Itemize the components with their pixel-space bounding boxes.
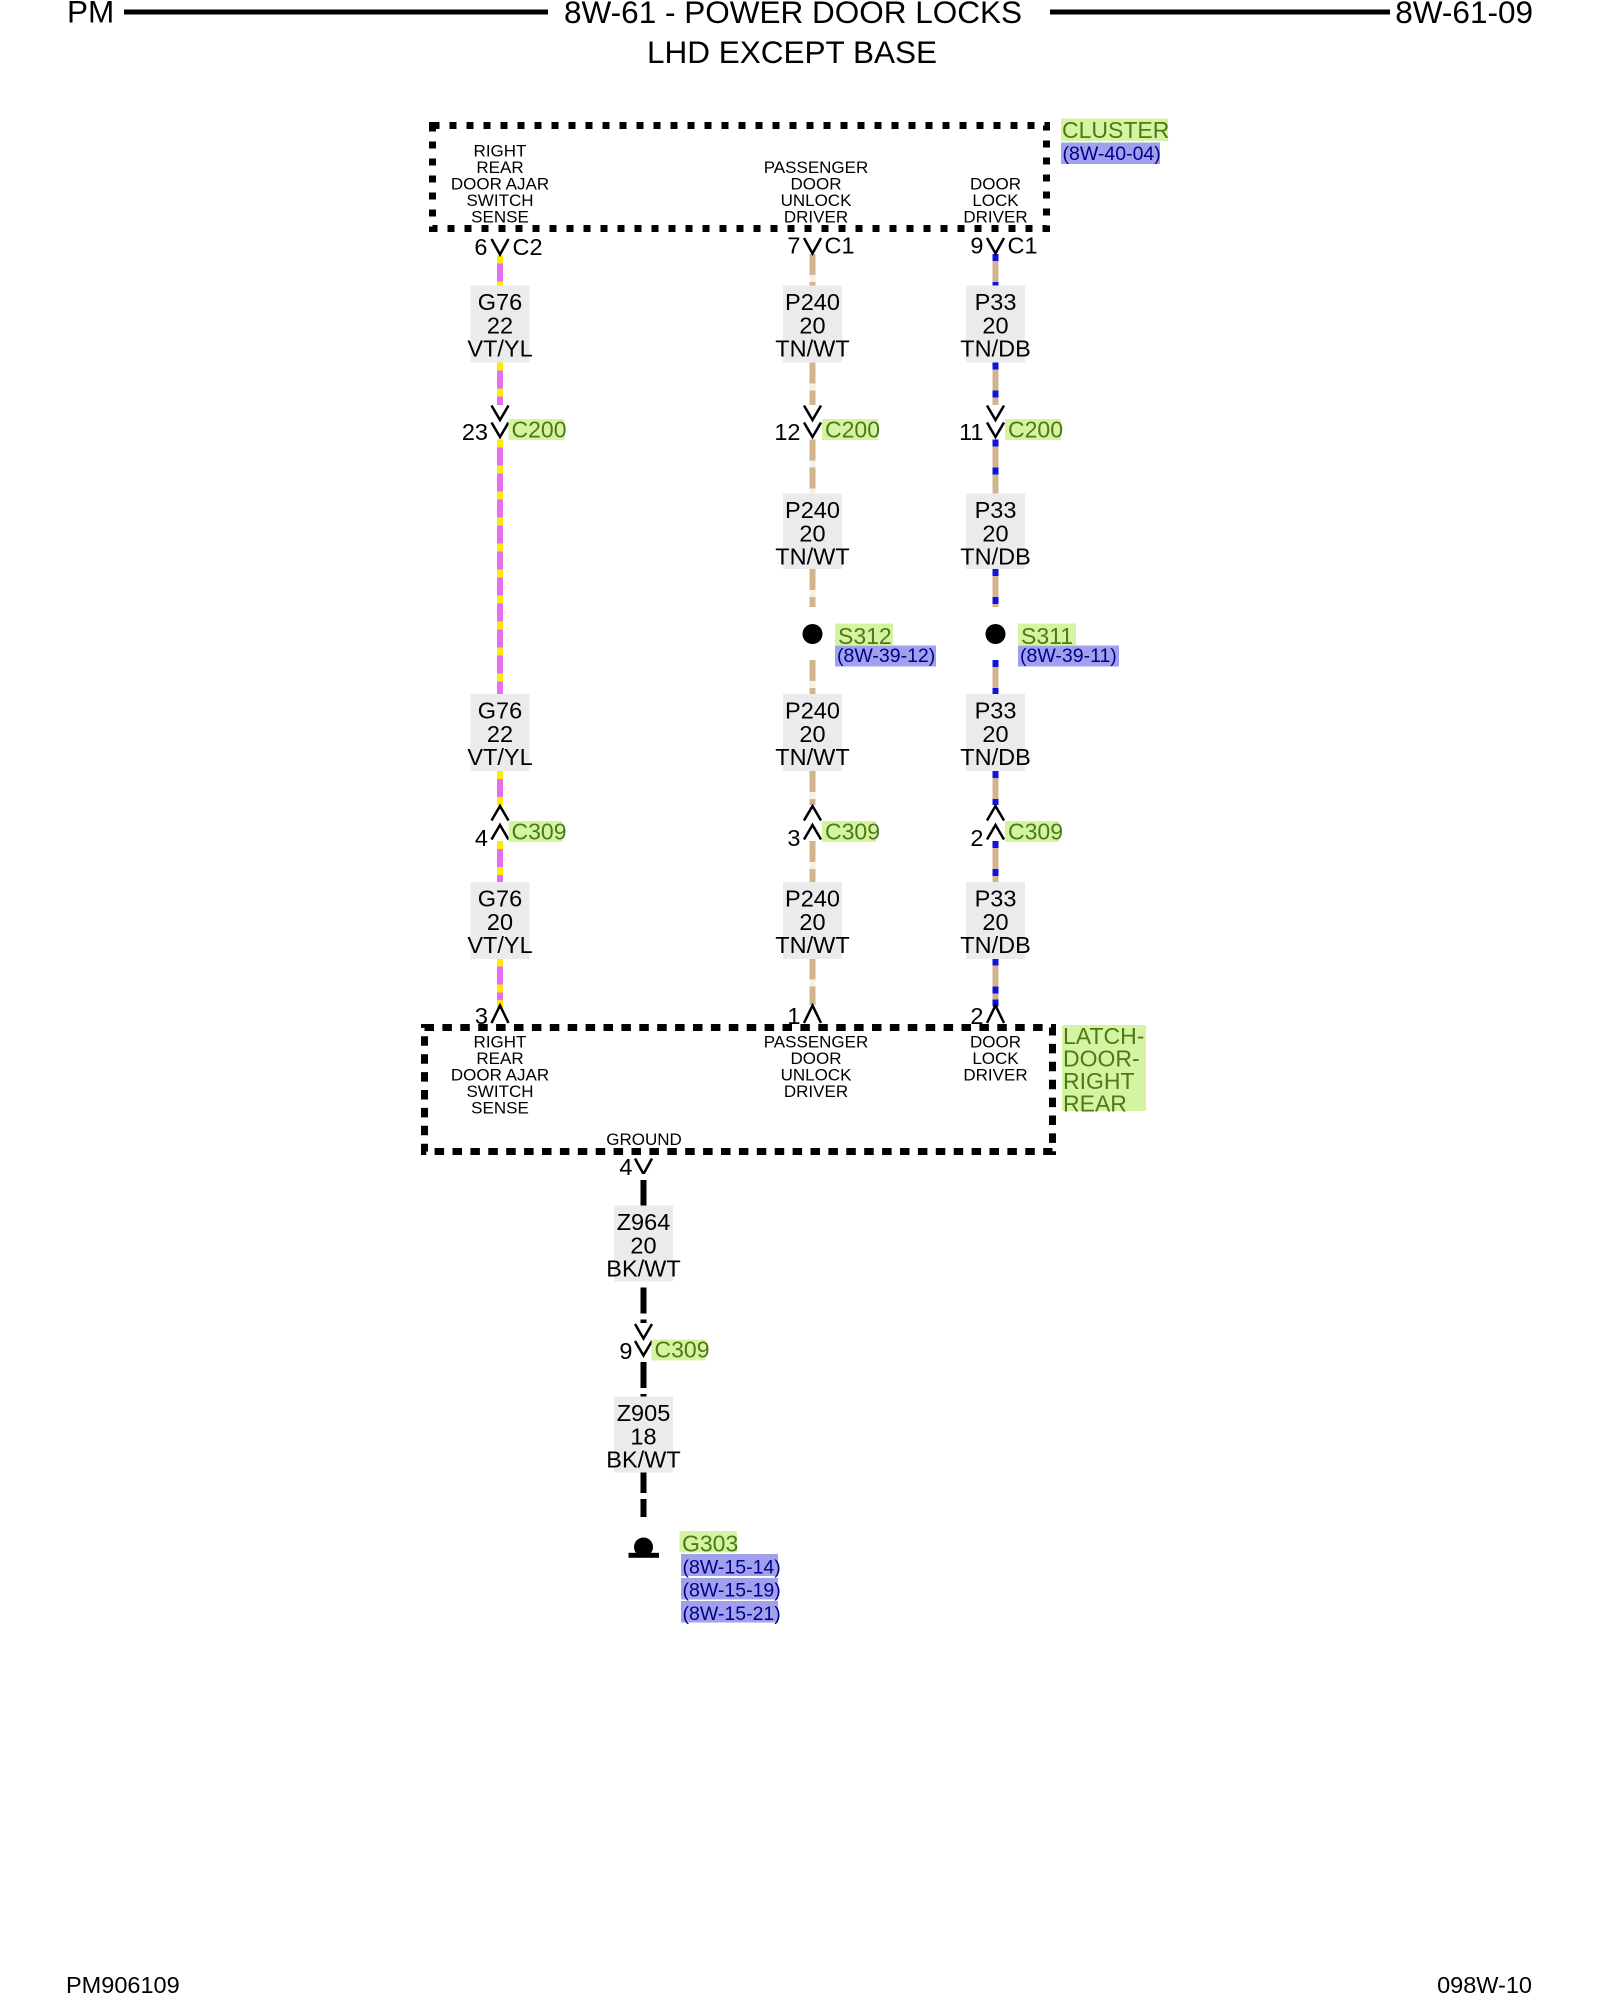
svg-text:P240: P240 [785,497,840,523]
svg-text:PM: PM [67,0,114,30]
svg-text:C2: C2 [513,234,543,260]
svg-text:20: 20 [799,312,825,338]
svg-text:20: 20 [799,520,825,546]
svg-text:C309: C309 [512,819,567,845]
svg-text:4: 4 [619,1154,632,1180]
svg-text:DRIVER: DRIVER [963,208,1027,227]
svg-text:VT/YL: VT/YL [467,744,532,770]
svg-text:P33: P33 [975,289,1017,315]
svg-text:GROUND: GROUND [606,1130,682,1149]
svg-text:G76: G76 [478,289,522,315]
svg-text:G76: G76 [478,698,522,724]
svg-text:2: 2 [970,825,983,851]
svg-text:C1: C1 [1008,233,1038,259]
svg-text:(8W-15-19): (8W-15-19) [683,1580,781,1602]
svg-text:VT/YL: VT/YL [467,932,532,958]
svg-text:Z964: Z964 [617,1209,671,1235]
svg-text:DRIVER: DRIVER [784,208,848,227]
svg-text:BK/WT: BK/WT [606,1447,680,1473]
svg-text:REAR: REAR [1063,1091,1127,1117]
svg-text:BK/WT: BK/WT [606,1256,680,1282]
svg-text:P33: P33 [975,886,1017,912]
svg-text:C200: C200 [825,417,880,443]
svg-text:20: 20 [799,909,825,935]
svg-text:P240: P240 [785,289,840,315]
svg-text:Z905: Z905 [617,1400,671,1426]
svg-text:20: 20 [982,312,1008,338]
svg-text:DRIVER: DRIVER [784,1082,848,1101]
svg-text:C200: C200 [512,417,567,443]
svg-text:TN/DB: TN/DB [960,544,1031,570]
svg-text:LHD EXCEPT BASE: LHD EXCEPT BASE [647,34,937,70]
svg-text:23: 23 [462,419,488,445]
svg-text:TN/WT: TN/WT [775,744,849,770]
svg-text:(8W-15-21): (8W-15-21) [683,1603,781,1625]
svg-text:098W-10: 098W-10 [1437,1972,1532,1998]
svg-text:(8W-15-14): (8W-15-14) [683,1557,781,1579]
svg-text:20: 20 [630,1232,656,1258]
svg-text:P240: P240 [785,886,840,912]
svg-text:20: 20 [982,721,1008,747]
svg-text:20: 20 [982,909,1008,935]
svg-text:20: 20 [982,520,1008,546]
svg-text:TN/DB: TN/DB [960,336,1031,362]
svg-text:TN/DB: TN/DB [960,932,1031,958]
svg-text:P240: P240 [785,698,840,724]
svg-text:8W-61-09: 8W-61-09 [1395,0,1533,30]
svg-text:SENSE: SENSE [471,1099,529,1118]
svg-text:22: 22 [487,312,513,338]
svg-text:C200: C200 [1008,417,1063,443]
svg-text:8W-61 - POWER DOOR LOCKS: 8W-61 - POWER DOOR LOCKS [564,0,1022,30]
svg-text:G303: G303 [682,1531,738,1557]
svg-text:C309: C309 [655,1337,710,1363]
svg-text:12: 12 [774,419,800,445]
svg-text:9: 9 [970,233,983,259]
svg-text:G76: G76 [478,886,522,912]
svg-text:CLUSTER: CLUSTER [1062,117,1169,143]
svg-text:DRIVER: DRIVER [963,1066,1027,1085]
svg-text:20: 20 [799,721,825,747]
svg-text:(8W-39-11): (8W-39-11) [1020,645,1117,667]
svg-text:VT/YL: VT/YL [467,336,532,362]
svg-text:18: 18 [630,1423,656,1449]
svg-text:P33: P33 [975,497,1017,523]
svg-text:TN/WT: TN/WT [775,544,849,570]
svg-text:C309: C309 [1008,819,1063,845]
svg-text:(8W-40-04): (8W-40-04) [1063,143,1161,165]
svg-text:4: 4 [475,825,488,851]
svg-text:PM906109: PM906109 [66,1972,180,1998]
svg-text:3: 3 [787,825,800,851]
svg-text:TN/DB: TN/DB [960,744,1031,770]
svg-text:C1: C1 [825,233,855,259]
svg-text:9: 9 [619,1338,632,1364]
svg-text:TN/WT: TN/WT [775,932,849,958]
svg-text:11: 11 [959,419,983,445]
svg-text:TN/WT: TN/WT [775,336,849,362]
svg-text:22: 22 [487,721,513,747]
svg-text:(8W-39-12): (8W-39-12) [837,645,935,667]
svg-text:7: 7 [787,233,800,259]
svg-text:P33: P33 [975,698,1017,724]
svg-text:C309: C309 [825,819,880,845]
svg-text:SENSE: SENSE [471,208,529,227]
svg-text:6: 6 [474,234,487,260]
svg-text:20: 20 [487,909,513,935]
